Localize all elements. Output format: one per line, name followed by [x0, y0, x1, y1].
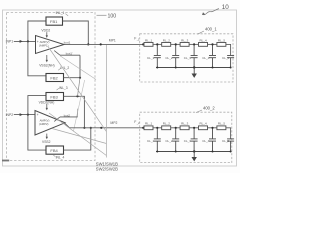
wire ladder1 top [153, 43, 162, 45]
junction input2 branch [27, 114, 29, 116]
input arrowhead 1 [20, 40, 23, 43]
resistor RL1 [144, 43, 153, 47]
leader vertical [105, 45, 107, 158]
junction FB3-out2 [83, 127, 85, 129]
wire FB1 return [63, 21, 89, 44]
svg-text:CL_1: CL_1 [147, 56, 155, 60]
wire ladder2 rail [156, 151, 231, 153]
wire to FB1 [28, 21, 46, 41]
op-amp AMP2 [35, 111, 65, 136]
svg-text:RL_4: RL_4 [200, 38, 208, 42]
svg-text:400_2: 400_2 [203, 106, 215, 111]
capacitor CL6 [154, 128, 161, 152]
load block 400_2 [140, 112, 232, 162]
svg-text:RL_3: RL_3 [181, 38, 189, 42]
svg-text:FB1: FB1 [50, 19, 58, 24]
resistor RL3 [180, 43, 189, 47]
load block 400_1 [140, 34, 233, 82]
svg-text:RL_2: RL_2 [163, 122, 171, 126]
svg-text:400_1: 400_1 [205, 27, 217, 32]
capacitor CL9 [209, 128, 216, 152]
svg-text:CL_5: CL_5 [222, 139, 230, 143]
svg-text:CL_4: CL_4 [202, 139, 210, 143]
svg-text:RL_1: RL_1 [145, 38, 153, 42]
dashed block 100 [7, 13, 96, 161]
svg-text:RL_1: RL_1 [145, 122, 153, 126]
svg-text:Iout2: Iout2 [64, 113, 71, 117]
wire output1 [64, 43, 144, 45]
resistor RL9 [199, 126, 208, 130]
svg-text:SW2/SW2B: SW2/SW2B [96, 167, 118, 172]
wire FB3 return [64, 96, 85, 128]
svg-text:CL_3: CL_3 [184, 139, 192, 143]
junction FB4-out2 [90, 127, 92, 129]
wire ladder2 top [153, 127, 162, 129]
wire cross link [78, 78, 81, 97]
feedback FB1 [46, 17, 63, 25]
resistor RL4 [199, 43, 208, 47]
wire to FB3 [28, 96, 46, 115]
svg-text:MP2: MP2 [110, 121, 117, 125]
svg-text:INL_1: INL_1 [56, 11, 65, 15]
svg-text:CL_3: CL_3 [184, 56, 192, 60]
wire to FB4 [28, 115, 46, 151]
svg-text:CL_2: CL_2 [165, 56, 173, 60]
switch arm SW1B [54, 51, 60, 56]
junction input1 branch [27, 40, 29, 42]
label 100 [97, 14, 107, 16]
capacitor CL10 [227, 139, 234, 152]
leader line SW2B [52, 129, 106, 144]
svg-text:VSS2(NH): VSS2(NH) [39, 64, 54, 68]
wire stub inverting input 1 [79, 55, 81, 77]
feedback FB2 [46, 74, 64, 82]
wire output2 [65, 123, 144, 128]
svg-text:INP2: INP2 [6, 113, 14, 117]
svg-text:RL_5: RL_5 [218, 122, 226, 126]
resistor RL8 [180, 126, 189, 130]
leader line SW1B shallow [60, 56, 96, 80]
svg-text:RL_4: RL_4 [200, 122, 208, 126]
feedback FB3 [46, 93, 64, 101]
figure frame [3, 10, 237, 166]
svg-text:INP1: INP1 [6, 40, 14, 44]
svg-text:CL_5: CL_5 [222, 56, 230, 60]
ground 2 [193, 150, 195, 152]
svg-text:INL_3: INL_3 [59, 86, 68, 90]
supply VSS2 [46, 55, 48, 61]
capacitor CL2 [172, 44, 179, 67]
svg-text:+: + [37, 113, 39, 117]
junction FB2 [79, 77, 81, 79]
junction FB1-out1 [87, 43, 89, 45]
svg-text:RL_5: RL_5 [218, 38, 226, 42]
input arrowhead 2 [20, 113, 23, 116]
svg-text:(AMP1): (AMP1) [39, 43, 49, 47]
wire input1 [14, 40, 36, 42]
svg-text:CL_4: CL_4 [202, 56, 210, 60]
capacitor CL4 [209, 44, 216, 67]
svg-text:FB3: FB3 [50, 94, 58, 99]
resistor RL10 [217, 126, 226, 130]
svg-text:FB4: FB4 [50, 148, 58, 153]
svg-text:VDD2: VDD2 [41, 29, 50, 33]
capacitor CL8 [191, 128, 198, 152]
capacitor CL1 [154, 44, 161, 67]
resistor RL2 [162, 43, 171, 47]
svg-text:MP1: MP1 [109, 38, 116, 42]
op-amp AMP1 [36, 36, 65, 54]
svg-text:RL_2: RL_2 [163, 38, 171, 42]
svg-text:100: 100 [108, 14, 117, 20]
svg-text:RL_3: RL_3 [181, 122, 189, 126]
wire FB4 return [64, 128, 91, 150]
terminal MP1 [100, 43, 102, 45]
svg-text:+: + [37, 40, 39, 44]
ground 1 [193, 66, 195, 68]
wire stub input 2 [60, 116, 78, 118]
leader line SW2 [49, 113, 106, 156]
leader line SW1 [48, 47, 106, 132]
capacitor CL3 [191, 44, 198, 67]
svg-text:(AMP2): (AMP2) [39, 122, 49, 126]
svg-text:CL_1: CL_1 [147, 139, 155, 143]
resistor RL7 [162, 126, 171, 130]
wire FB2 return [64, 77, 81, 79]
svg-text:FB2: FB2 [50, 75, 58, 80]
resistor RL6 [144, 126, 153, 130]
svg-text:VSS2: VSS2 [42, 140, 51, 144]
figure pointer 10 [203, 9, 220, 15]
svg-text:INL_4: INL_4 [56, 156, 65, 160]
wire input2 [14, 114, 35, 116]
switch arm SW2B [54, 117, 60, 122]
capacitor CL7 [172, 128, 179, 152]
feedback FB4 [46, 146, 64, 154]
resistor RL5 [217, 43, 226, 47]
svg-text:10: 10 [222, 4, 230, 11]
supply VSS2 amp2 [46, 134, 48, 138]
wire to FB2 [28, 41, 46, 75]
page mark [2, 160, 9, 162]
capacitor CL5 [227, 56, 234, 68]
wire ladder1 rail [156, 67, 231, 69]
svg-text:Iout1': Iout1' [66, 52, 73, 56]
svg-text:VDD2(NH): VDD2(NH) [39, 100, 55, 104]
terminal MP2 [100, 127, 102, 129]
svg-text:CL_2: CL_2 [165, 139, 173, 143]
